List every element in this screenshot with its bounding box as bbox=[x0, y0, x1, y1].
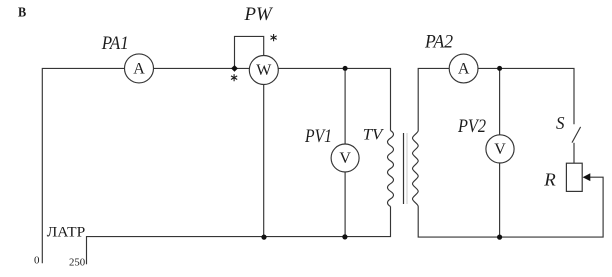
svg-text:PA1: PA1 bbox=[101, 33, 129, 54]
svg-text:V: V bbox=[494, 141, 506, 158]
wire left rail and top wire to PA1 bbox=[42, 68, 124, 263]
transformer TV core line 2 (faint) bbox=[406, 133, 408, 204]
node junction under PV1 on bottom bus bbox=[342, 234, 347, 239]
asterisk polarity mark (top, by loop corner) bbox=[271, 34, 277, 41]
svg-text:PV1: PV1 bbox=[304, 126, 332, 147]
wire PV2 branch bottom bbox=[499, 163, 501, 237]
wire PV1 branch bottom bbox=[344, 172, 346, 237]
node junction under W on bottom bus bbox=[261, 235, 266, 240]
svg-text:V: V bbox=[339, 150, 351, 167]
transformer TV secondary winding bbox=[413, 131, 419, 207]
wire PA2 to top-right corner and switch stub bbox=[478, 68, 574, 124]
svg-text:TV: TV bbox=[363, 127, 385, 144]
asterisk polarity mark (below junction) bbox=[231, 74, 237, 81]
wire primary bottom bus with LATR stub bbox=[87, 207, 391, 265]
ammeter PA1 bbox=[125, 54, 154, 83]
wire PW voltage-coil loop bbox=[235, 36, 264, 68]
svg-text:R: R bbox=[543, 169, 556, 189]
switch S blade bbox=[572, 127, 581, 143]
wattmeter PW bbox=[249, 56, 278, 85]
svg-text:PA2: PA2 bbox=[424, 32, 453, 53]
svg-text:W: W bbox=[256, 62, 272, 79]
svg-text:250: 250 bbox=[69, 256, 86, 268]
wire secondary bottom bus, right rail and wiper line bbox=[418, 177, 603, 237]
svg-text:S: S bbox=[556, 113, 565, 133]
wire PV2 branch top bbox=[499, 68, 501, 134]
transformer TV primary winding bbox=[388, 131, 394, 207]
svg-text:A: A bbox=[133, 60, 145, 77]
wire PV1 branch top bbox=[344, 68, 346, 144]
svg-text:PW: PW bbox=[244, 4, 274, 25]
wire PA1 to junction and W bbox=[154, 67, 250, 69]
wire switch lower stub to R bbox=[573, 143, 575, 163]
svg-text:В: В bbox=[18, 5, 26, 20]
wire secondary top lead to PA2 bbox=[418, 68, 449, 130]
svg-text:PV2: PV2 bbox=[457, 116, 486, 137]
resistor R (rheostat body) bbox=[566, 163, 582, 191]
transformer TV core line bbox=[403, 133, 405, 204]
wire W right to primary top lead bbox=[278, 68, 390, 130]
ammeter PA2 bbox=[449, 54, 478, 83]
node junction at PV2 top bbox=[497, 66, 502, 71]
node junction at PV1 top bbox=[343, 66, 348, 71]
svg-text:0: 0 bbox=[34, 255, 40, 267]
node junction under PV2 on bottom bus bbox=[497, 235, 502, 240]
wiper arrowhead of R bbox=[583, 173, 591, 181]
svg-text:ЛАТР: ЛАТР bbox=[47, 224, 85, 240]
node junction diamond at wattmeter input bbox=[231, 65, 238, 72]
wire W bottom lead bbox=[263, 85, 265, 237]
voltmeter PV2 bbox=[486, 135, 514, 163]
svg-text:A: A bbox=[458, 61, 470, 78]
voltmeter PV1 bbox=[331, 144, 359, 172]
